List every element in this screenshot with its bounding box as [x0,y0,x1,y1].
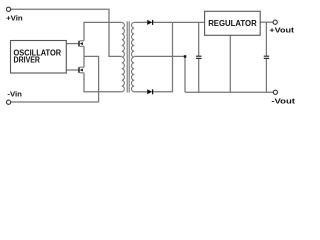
terminal +Vout [273,20,277,24]
svg-text:REGULATOR: REGULATOR [208,19,257,28]
wire bottom common rail [185,91,273,93]
regulator box U2 [205,11,261,35]
terminal -Vout [273,90,277,94]
wire secondary center tap [134,55,185,57]
wire Q1 emitter / Q2 collector vertical [83,46,85,67]
wire secondary bottom to diode D2 [134,91,147,93]
transistor Q1 [79,41,84,47]
svg-text:+Vout: +Vout [269,25,294,34]
oscillator driver box U1 [11,41,67,74]
svg-text:+Vin: +Vin [6,14,23,23]
wire regulator ground [229,35,231,92]
transformer T1 primary winding [122,22,125,91]
terminal +Vin [6,7,10,11]
wire Q2 bottom to primary bottom [84,73,122,92]
terminal -Vin [7,100,11,104]
wire -Vin rail [11,101,99,103]
transistor Q2 [79,67,84,73]
capacitor C2 leads [265,22,267,56]
wire Q2 base [66,69,78,71]
svg-text:-Vin: -Vin [7,90,22,99]
transformer T1 secondary winding [131,22,134,91]
wire D2 up to top rail [153,22,173,91]
wire +Vin top rail to primary center tap [11,9,122,56]
svg-text:-Vout: -Vout [271,96,295,105]
wire midpoint to -Vin rail [84,56,99,102]
capacitor C1 plates [196,56,202,58]
diode D2 [147,89,152,94]
junction dot [184,55,187,58]
wire center tap down to common rail [184,56,186,92]
wire Q1 collector to primary top [84,22,122,40]
transformer T1 core [126,21,128,92]
wire D1 to regulator input [153,21,205,23]
diode D1 [147,20,152,25]
svg-text:DRIVER: DRIVER [14,56,41,65]
capacitor C1 leads [198,22,200,56]
wire regulator output [260,21,273,23]
wire secondary top to diode D1 [134,21,147,23]
wire Q1 base [66,43,78,45]
capacitor C2 plates [264,56,270,58]
